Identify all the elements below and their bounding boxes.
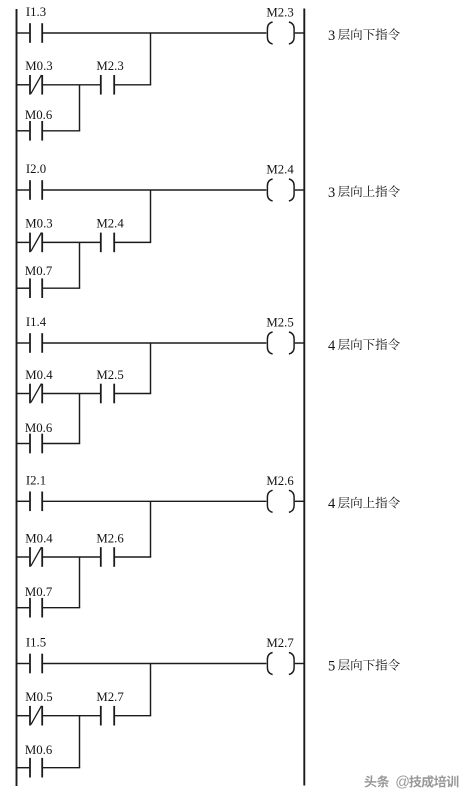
svg-text:3: 3 — [328, 185, 335, 201]
wire rung1 row2 to branch riser — [115, 84, 151, 86]
wire rung4 row2 to branch riser — [115, 556, 151, 558]
wire rung4 row2 middle — [43, 556, 100, 558]
contact I1.4 (normally open) — [30, 333, 42, 353]
wire rung4 row3 to junction — [43, 607, 80, 609]
wire rung1 branch riser to row1 — [150, 33, 152, 85]
svg-text:M2.5: M2.5 — [96, 368, 123, 382]
wire rung5 branch riser to row1 — [150, 664, 152, 716]
contact M0.6 (normally open) — [30, 434, 42, 454]
annotation 3层向下指令 — [328, 28, 400, 44]
svg-text:M2.6: M2.6 — [96, 531, 124, 545]
svg-text:4: 4 — [328, 496, 336, 512]
svg-text:5: 5 — [328, 658, 335, 674]
watermark 头条@技成培训 — [364, 775, 459, 792]
wire rung5 row2 from left rail — [16, 715, 29, 717]
wire rung3 row1 to coil — [43, 342, 266, 344]
svg-text:M0.3: M0.3 — [25, 59, 52, 73]
coil M2.5 — [267, 332, 294, 354]
wire rung5 row1 from left rail — [16, 663, 29, 665]
contact M0.5 (normally closed) — [30, 706, 42, 726]
right power rail — [303, 9, 305, 786]
wire rung5 junction riser row2-row3 — [79, 716, 81, 768]
wire coil M2.5 to right rail — [295, 342, 305, 344]
contact I2.1 (normally open) — [30, 492, 42, 512]
wire rung4 junction riser row2-row3 — [79, 557, 81, 608]
wire coil M2.4 to right rail — [295, 189, 305, 191]
wire rung2 row2 middle — [43, 241, 100, 243]
wire rung3 row3 to junction — [43, 443, 80, 445]
wire rung1 row2 from left rail — [16, 84, 29, 86]
wire rung5 row2 middle — [43, 715, 100, 717]
svg-text:M0.4: M0.4 — [25, 368, 53, 382]
wire rung4 branch riser to row1 — [150, 501, 152, 557]
wire rung1 row1 from left rail — [16, 32, 29, 34]
svg-text:M0.6: M0.6 — [25, 108, 53, 122]
contact M2.3 (seal-in) (normally open) — [101, 75, 114, 95]
svg-text:M2.7: M2.7 — [96, 690, 124, 704]
svg-text:M2.4: M2.4 — [266, 163, 294, 177]
left power rail — [16, 9, 18, 786]
wire rung2 row1 to coil — [43, 189, 266, 191]
wire rung1 row3 from left rail — [16, 130, 29, 132]
contact M0.4 (normally closed) — [30, 384, 42, 404]
wire rung5 row2 to branch riser — [115, 715, 151, 717]
contact M2.6 (seal-in) (normally open) — [101, 547, 114, 567]
contact M2.7 (seal-in) (normally open) — [101, 706, 114, 726]
wire rung2 row1 from left rail — [16, 189, 29, 191]
svg-text:I2.1: I2.1 — [26, 473, 46, 487]
contact M0.7 (normally open) — [30, 598, 42, 618]
annotation 5层向下指令 — [328, 658, 400, 674]
svg-text:M2.3: M2.3 — [96, 59, 123, 73]
wire rung2 branch riser to row1 — [150, 190, 152, 242]
contact I1.5 (normally open) — [30, 654, 42, 674]
wire rung4 row2 from left rail — [16, 556, 29, 558]
svg-text:4: 4 — [328, 338, 336, 354]
wire rung5 row3 to junction — [43, 767, 80, 769]
svg-text:I1.4: I1.4 — [26, 315, 47, 329]
svg-text:M0.6: M0.6 — [25, 743, 53, 757]
annotation 4层向下指令 — [328, 338, 400, 354]
contact M0.7 (normally open) — [30, 278, 42, 298]
wire coil M2.3 to right rail — [295, 32, 305, 34]
wire rung4 row3 from left rail — [16, 607, 29, 609]
wire rung1 row2 middle — [43, 84, 100, 86]
wire rung3 row2 to branch riser — [115, 393, 151, 395]
svg-text:M2.6: M2.6 — [266, 474, 294, 488]
svg-text:M0.6: M0.6 — [25, 421, 53, 435]
contact I1.3 (normally open) — [30, 23, 42, 43]
wire rung1 row1 to coil — [43, 32, 266, 34]
wire rung2 row3 from left rail — [16, 287, 29, 289]
wire coil M2.7 to right rail — [295, 663, 305, 665]
wire rung3 junction riser row2-row3 — [79, 394, 81, 444]
svg-text:I1.5: I1.5 — [26, 636, 46, 650]
contact M0.3 (normally closed) — [30, 233, 42, 253]
wire rung3 row2 middle — [43, 393, 100, 395]
annotation 3层向上指令 — [328, 185, 400, 201]
wire rung3 row2 from left rail — [16, 393, 29, 395]
contact M0.6 (normally open) — [30, 121, 42, 141]
contact M2.4 (seal-in) (normally open) — [101, 233, 114, 253]
wire rung2 junction riser row2-row3 — [79, 242, 81, 288]
wire coil M2.6 to right rail — [295, 500, 305, 502]
contact M0.6 (normally open) — [30, 758, 42, 778]
wire rung5 row3 from left rail — [16, 767, 29, 769]
coil M2.7 — [267, 653, 294, 675]
svg-text:I1.3: I1.3 — [26, 5, 46, 19]
svg-text:M0.7: M0.7 — [25, 585, 53, 599]
coil M2.6 — [267, 490, 294, 512]
wire rung4 row1 to coil — [43, 500, 266, 502]
wire rung4 row1 from left rail — [16, 500, 29, 502]
contact M0.3 (normally closed) — [30, 75, 42, 95]
wire rung2 row2 to branch riser — [115, 241, 151, 243]
svg-text:M0.3: M0.3 — [25, 217, 52, 231]
annotation 4层向上指令 — [328, 496, 400, 512]
wire rung1 row3 to junction — [43, 130, 80, 132]
svg-text:I2.0: I2.0 — [26, 162, 46, 176]
contact M0.4 (normally closed) — [30, 547, 42, 567]
svg-text:M0.7: M0.7 — [25, 264, 53, 278]
svg-text:M2.4: M2.4 — [96, 217, 124, 231]
wire rung1 junction riser row2-row3 — [79, 85, 81, 131]
svg-text:M2.7: M2.7 — [266, 636, 294, 650]
svg-text:M0.4: M0.4 — [25, 531, 53, 545]
wire rung5 row1 to coil — [43, 663, 266, 665]
contact M2.5 (seal-in) (normally open) — [101, 384, 114, 404]
wire rung3 row3 from left rail — [16, 443, 29, 445]
coil M2.3 — [267, 22, 294, 44]
svg-text:M2.5: M2.5 — [266, 316, 293, 330]
svg-text:M2.3: M2.3 — [266, 6, 293, 20]
contact I2.0 (normally open) — [30, 180, 42, 200]
wire rung3 branch riser to row1 — [150, 343, 152, 394]
wire rung2 row3 to junction — [43, 287, 80, 289]
wire rung3 row1 from left rail — [16, 342, 29, 344]
coil M2.4 — [267, 179, 294, 201]
svg-text:M0.5: M0.5 — [25, 690, 52, 704]
svg-text:3: 3 — [328, 28, 335, 44]
svg-text:@: @ — [395, 775, 410, 791]
wire rung2 row2 from left rail — [16, 241, 29, 243]
